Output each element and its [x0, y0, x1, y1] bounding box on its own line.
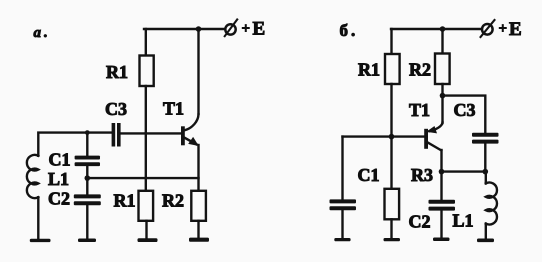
node junction on rail b	[440, 26, 446, 32]
wire top rail a	[144, 28, 226, 30]
capacitor C2 plates	[74, 194, 101, 198]
wire R2 bottom to emitter node (b)	[441, 84, 443, 96]
svg-text:C2: C2	[409, 212, 431, 232]
wire top rail b	[391, 28, 481, 30]
svg-text:E: E	[253, 19, 266, 40]
transistor T1 base bar (b)	[424, 129, 428, 149]
svg-text:+: +	[242, 21, 251, 37]
wire emitter vertical a	[197, 145, 199, 191]
svg-text:R1: R1	[106, 62, 128, 82]
wire R1b bottom lead	[145, 221, 147, 239]
capacitor C2 plates (b)	[429, 200, 456, 204]
capacitor C1 plates (b)	[330, 199, 357, 203]
svg-text:R3: R3	[411, 165, 433, 185]
svg-text:T1: T1	[409, 100, 430, 120]
svg-text:C3: C3	[105, 99, 127, 119]
node junction base divider (b)	[389, 134, 395, 140]
terminal +E a	[225, 24, 235, 34]
wire emitter vertical (b)	[441, 96, 443, 123]
wire C3 bottom lead	[484, 144, 486, 172]
transistor T1 emitter stroke (a)	[184, 138, 196, 145]
svg-text:+: +	[499, 21, 508, 37]
transistor T1 emitter arrowhead (b)	[426, 126, 437, 133]
wire base node down to R1b	[145, 133, 147, 191]
wire C1-C2 link	[86, 166, 88, 194]
svg-text:C1: C1	[49, 150, 71, 170]
svg-text:C2: C2	[48, 189, 70, 209]
resistor R1 (b)	[385, 54, 400, 84]
ground under R2 (a)	[189, 238, 209, 242]
wire C3 to base	[121, 132, 182, 134]
svg-text:L1: L1	[48, 169, 69, 189]
resistor R2 (b)	[435, 54, 450, 85]
wire R1 bottom to base junction (b)	[390, 84, 392, 189]
resistor R2 (a)	[191, 191, 206, 221]
ground under C1 (b)	[334, 238, 350, 241]
svg-text:E: E	[509, 19, 522, 40]
wire emitter node to C3 branch	[443, 96, 486, 133]
ground under R1b (a)	[138, 238, 158, 242]
ground under L1 (b)	[477, 239, 494, 243]
svg-text:L1: L1	[453, 211, 474, 231]
terminal +E b	[482, 24, 493, 35]
capacitor C1 plates	[75, 156, 100, 160]
wire C2 bottom lead	[86, 205, 88, 239]
ground under C2 (b)	[433, 238, 450, 242]
svg-text:C3: C3	[454, 100, 476, 120]
inductor L1 coil (a)	[27, 155, 38, 198]
svg-text:C1: C1	[358, 165, 380, 185]
transistor T1 emitter stroke (b)	[430, 123, 443, 132]
inductor L1 coil (b)	[486, 183, 497, 225]
svg-text:R1: R1	[358, 60, 380, 80]
svg-text:R1: R1	[114, 191, 136, 211]
transistor T1 collector stroke (b)	[428, 143, 442, 151]
transistor T1 emitter arrowhead (a)	[188, 137, 199, 146]
node junction tank top	[85, 130, 90, 135]
ground under C2 (a)	[78, 239, 96, 243]
wire R1a bottom lead to base node	[145, 86, 147, 133]
node junction on rail a	[196, 26, 202, 32]
svg-text:T1: T1	[163, 99, 184, 119]
wire C2 top lead (b)	[440, 172, 442, 200]
resistor R3 (b)	[385, 189, 400, 220]
svg-text:б.: б.	[340, 21, 359, 40]
wire R2 top lead (b)	[441, 29, 443, 54]
wire C2 bottom lead (b)	[440, 211, 442, 238]
capacitor C3 plates (b)	[472, 133, 499, 137]
capacitor C3 plates	[112, 123, 116, 147]
svg-text:R2: R2	[409, 60, 431, 80]
wire coil bottom lead	[37, 197, 39, 239]
resistor R1 (bottom, a)	[139, 191, 154, 221]
node junction tank mid	[85, 175, 91, 181]
transistor T1 base bar (a)	[181, 126, 185, 145]
node junction L1 top (b)	[483, 169, 489, 175]
wire L1 bottom lead (b)	[485, 224, 487, 239]
wire C1 top lead	[86, 133, 88, 156]
wire collector vertical (b)	[440, 150, 442, 172]
wire collector vertical a	[197, 29, 199, 114]
wire R3 bottom lead	[390, 219, 392, 238]
wire collector node to L1 top	[442, 170, 486, 172]
ground under L1 (a)	[30, 239, 51, 242]
wire tank top / base wire left segment	[38, 133, 111, 156]
wire C1 bottom lead (b)	[341, 210, 343, 238]
node junction collector node (b)	[439, 169, 445, 175]
transistor T1 collector stroke (a)	[184, 115, 198, 131]
wire tank mid to emitter node	[87, 177, 198, 179]
wire L1 top lead (b)	[485, 172, 487, 184]
wire base wire (b)	[343, 135, 425, 137]
svg-text:R2: R2	[162, 191, 184, 211]
wire C1 branch down (b)	[341, 137, 343, 200]
svg-text:a.: a.	[34, 25, 51, 41]
wire R2 bottom lead	[197, 221, 199, 238]
ground under R3 (b)	[384, 238, 401, 241]
node junction emitter node (b)	[440, 93, 446, 99]
wire R1 top lead (b)	[390, 29, 392, 54]
resistor R1 (top, a)	[140, 56, 154, 87]
wire R1a top lead	[145, 29, 147, 56]
